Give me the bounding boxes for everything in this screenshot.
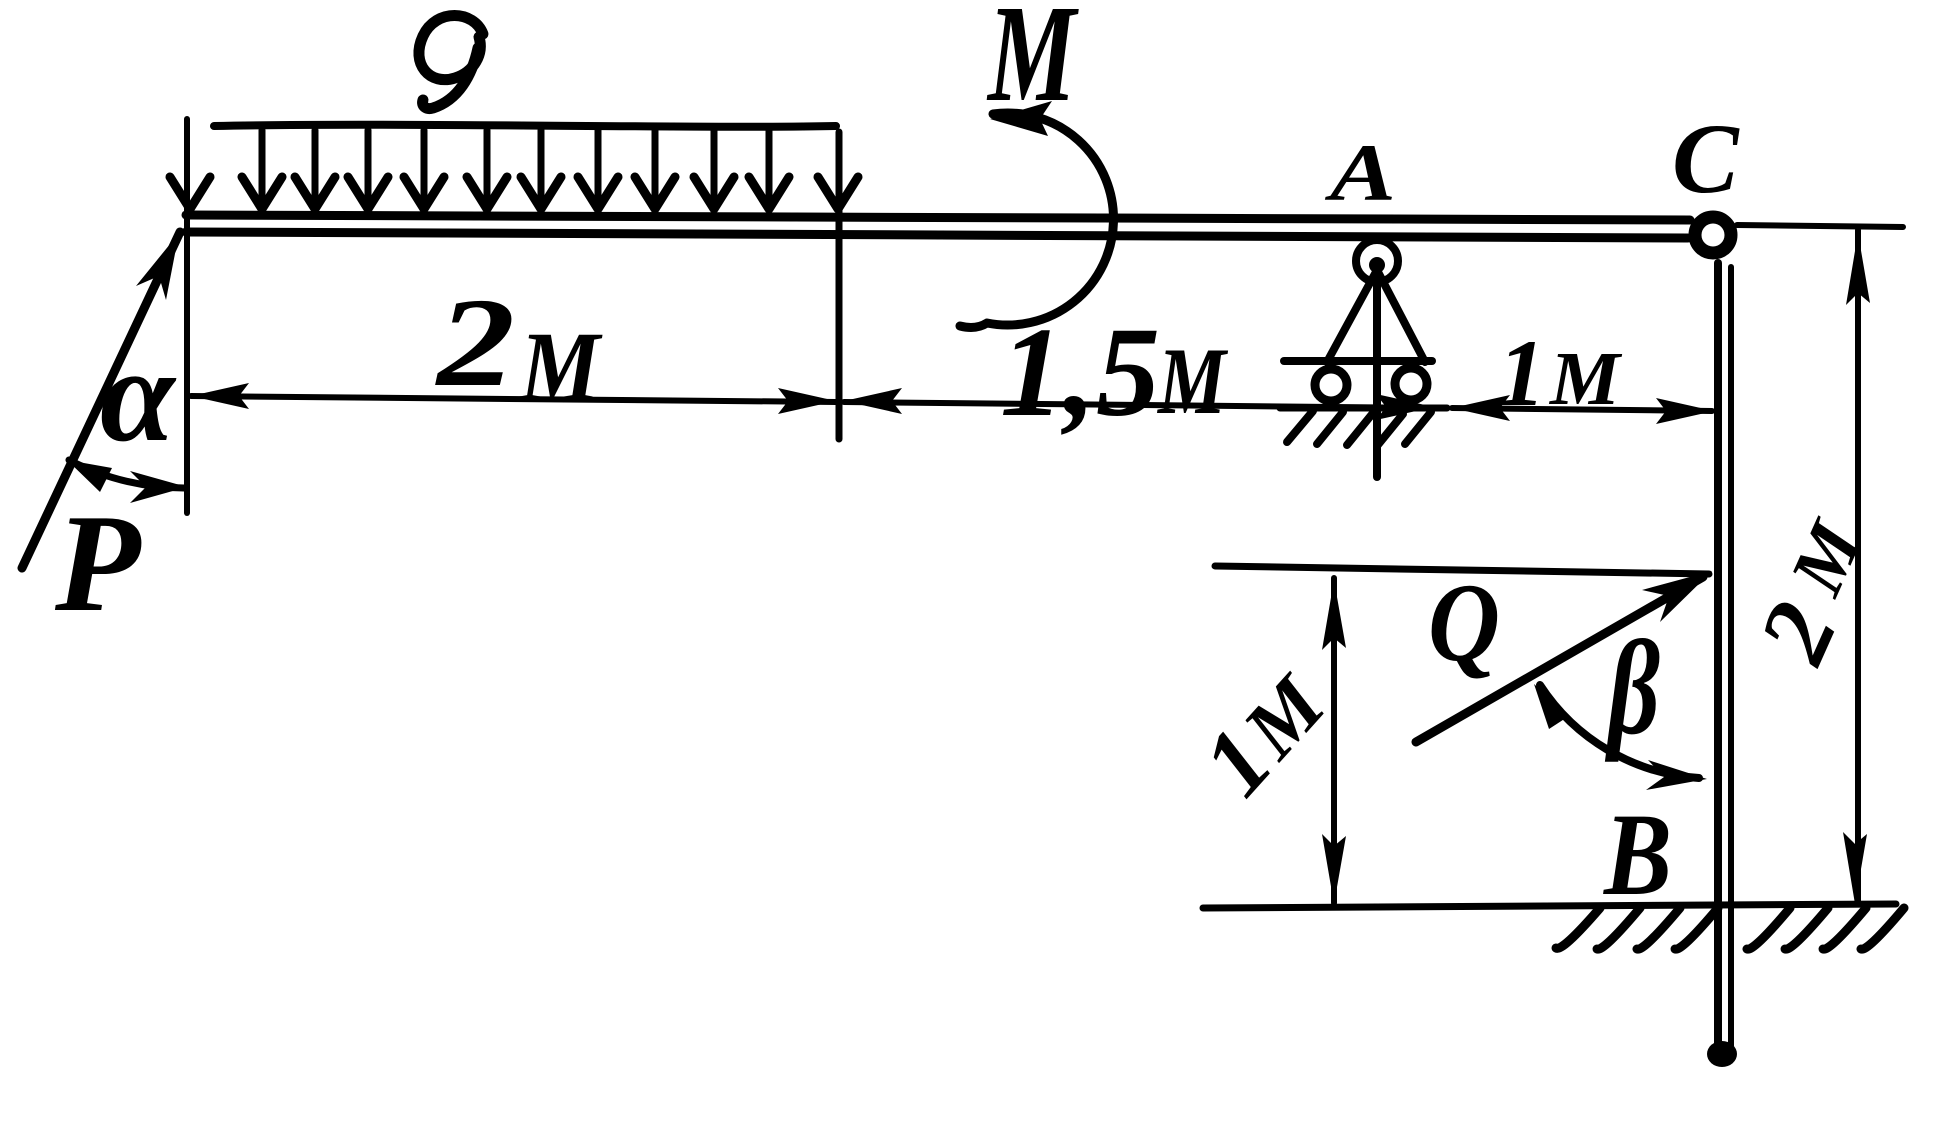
distributed load top line [214, 125, 836, 127]
dimension line 1m segment [1452, 408, 1712, 411]
dimension arrowhead left of 1m [1452, 395, 1510, 421]
distributed load arrow shafts [262, 130, 769, 203]
dimension arrowhead right at column [1656, 398, 1714, 424]
force Q arrowhead [1642, 571, 1712, 622]
pin C ring [1695, 217, 1731, 253]
dimension arrowhead left at 1.5m tick [844, 388, 902, 414]
svg-text:α: α [100, 321, 177, 470]
column bottom blob [1707, 1041, 1737, 1067]
svg-text:2: 2 [435, 273, 515, 413]
dimension arrowhead right at 2m tick [778, 388, 836, 414]
force P arrowhead [136, 233, 179, 300]
moment arrowhead [990, 101, 1052, 136]
dimension 1m vertical line [1331, 578, 1337, 903]
svg-text:M: M [1549, 337, 1623, 421]
bottom ground hatching [1556, 908, 1904, 949]
beam bottom chord [186, 232, 1688, 238]
angle alpha arc right arrowhead [130, 471, 187, 503]
angle alpha arc [69, 460, 184, 488]
angle beta arc [1540, 685, 1699, 778]
support A roller left [1315, 369, 1347, 401]
force Q line [1416, 577, 1703, 742]
dimension arrowhead right at support A [1376, 394, 1434, 420]
angle alpha arc left barb [67, 460, 112, 492]
svg-text:1,5: 1,5 [1000, 301, 1160, 443]
svg-text:P: P [54, 486, 142, 641]
dimension 1m vertical label [1182, 649, 1346, 815]
dimension 1m vertical bottom arrowhead [1322, 834, 1346, 904]
distributed load arrowheads [170, 177, 858, 209]
dimension 2m vertical line [1855, 230, 1861, 903]
beam top chord [186, 215, 1690, 220]
svg-text:B: B [1602, 789, 1672, 920]
svg-text:M: M [1774, 508, 1880, 607]
svg-text:Q: Q [1428, 561, 1500, 685]
dimension 1m vertical top arrowhead [1322, 580, 1346, 650]
column left line [1714, 263, 1722, 1062]
angle beta arc bottom arrowhead [1646, 760, 1707, 790]
support A roller right [1395, 368, 1427, 400]
dimension 2m vertical top arrowhead [1846, 233, 1870, 305]
svg-text:A: A [1324, 127, 1396, 218]
support A pin circle [1356, 240, 1398, 282]
svg-text:C: C [1672, 103, 1740, 214]
support A center post [1373, 262, 1381, 477]
support A triangle [1327, 270, 1425, 362]
svg-text:1: 1 [1498, 320, 1546, 426]
support A base bar [1284, 357, 1432, 365]
dimension 2m vertical bottom arrowhead [1843, 832, 1867, 904]
svg-text:M: M [1156, 328, 1228, 434]
force P line [22, 232, 180, 568]
svg-text:β: β [1604, 614, 1660, 763]
beam extension line right of pin C [1737, 225, 1903, 227]
dimension line 1.5m segment [844, 402, 1434, 408]
support A ground line [1280, 405, 1447, 412]
distributed load label q [419, 16, 483, 109]
bottom ground line [1203, 904, 1896, 908]
column right line [1728, 267, 1734, 1058]
support A pin dot [1369, 257, 1385, 273]
upper horizontal line at Q level [1215, 566, 1709, 574]
moment arc [960, 113, 1114, 327]
dimension line 2m segment [191, 396, 836, 402]
dimension tick at 2m boundary [836, 132, 843, 439]
left end post line [184, 119, 190, 513]
support A hatching [1287, 411, 1431, 446]
svg-text:M: M [518, 311, 603, 422]
dimension arrowhead left at post [191, 383, 249, 409]
dimension 2m vertical label [1738, 505, 1895, 679]
angle beta arc top barb [1534, 684, 1569, 729]
